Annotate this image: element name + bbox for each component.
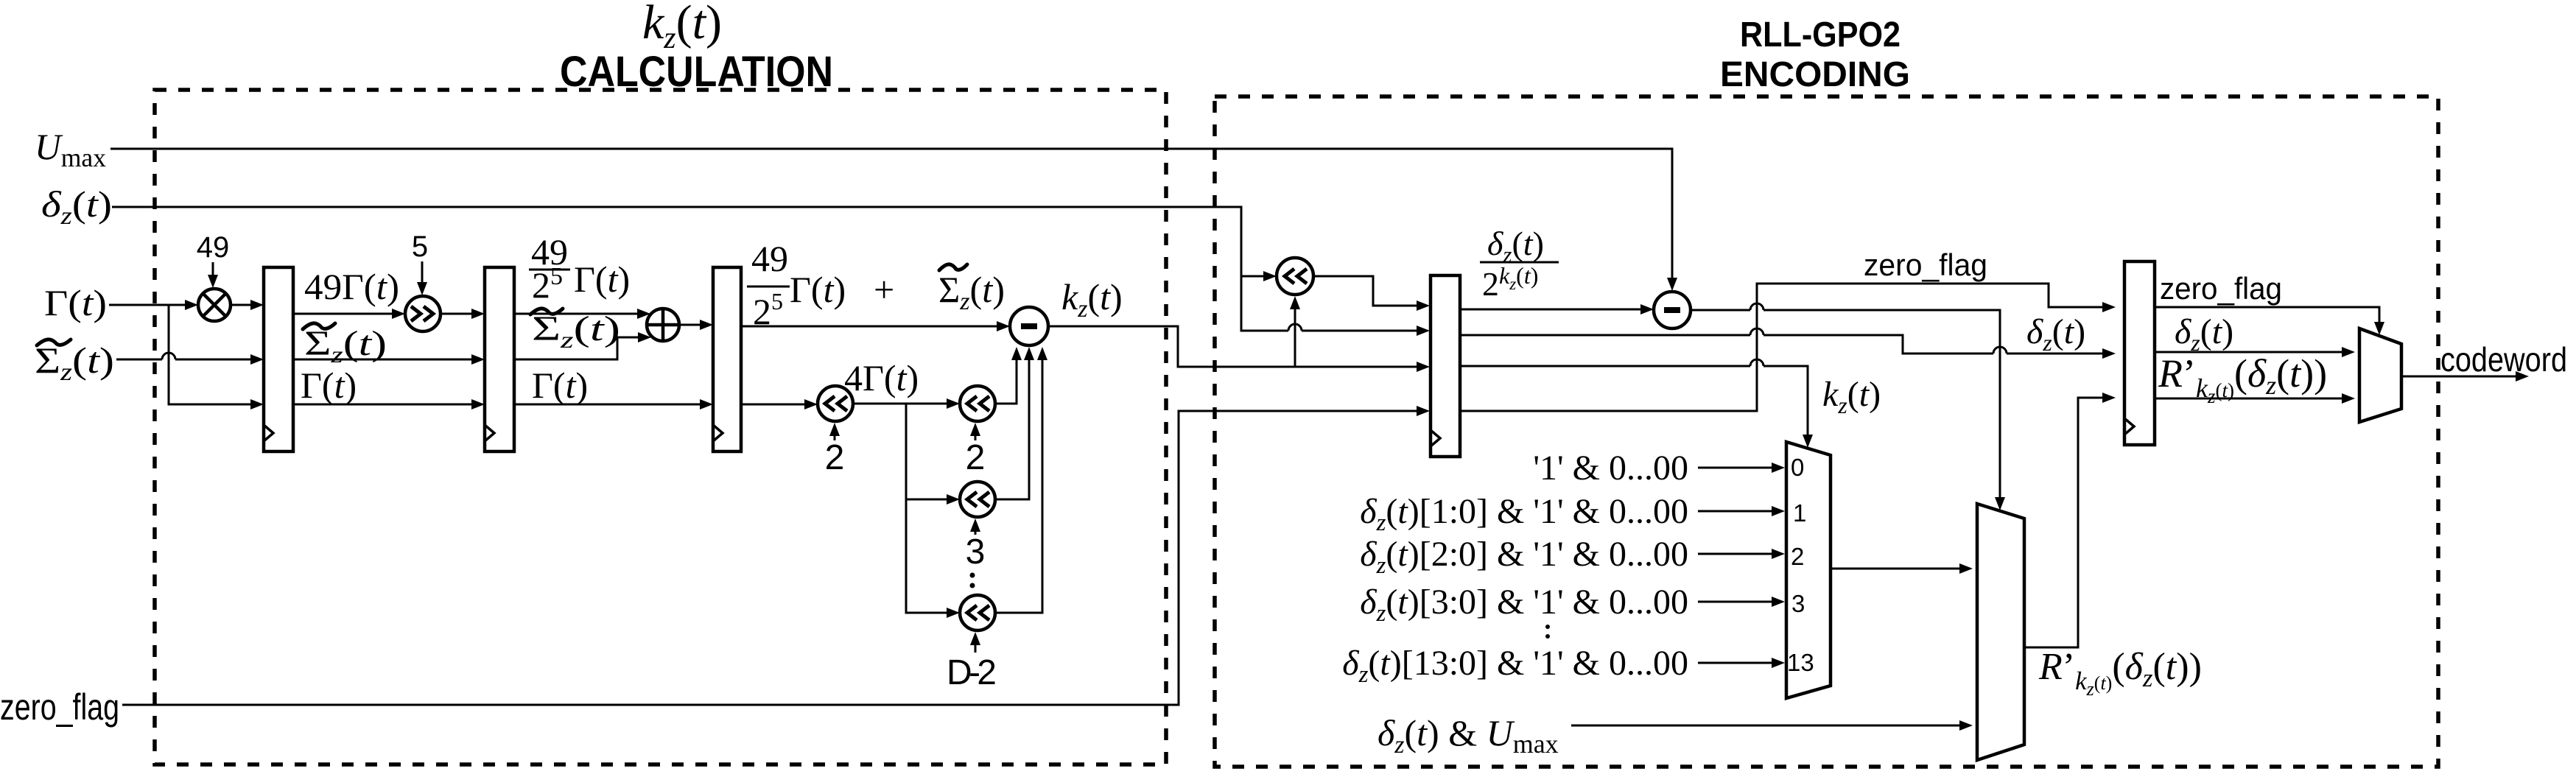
svg-text:δz(t)[2:0] & '1' & 0...00: δz(t)[2:0] & '1' & 0...00 (1360, 535, 1688, 579)
title ENCODING (1720, 55, 1910, 94)
dots mux inputs (1545, 625, 1550, 639)
svg-text:1: 1 (1793, 499, 1806, 527)
svg-text:Γ(t): Γ(t) (44, 282, 107, 323)
svg-text:+: + (874, 269, 894, 310)
adder (647, 309, 713, 341)
constant 3 under SL3 (966, 518, 986, 572)
mux1 input 0 (1533, 449, 1785, 488)
svg-text:δz(t): δz(t) (1487, 225, 1544, 267)
svg-text:δz(t): δz(t) (2026, 312, 2085, 356)
shifter left SL1 (818, 386, 960, 421)
label Rprime mux2 (2038, 646, 2202, 700)
subtractor kz (1010, 307, 1048, 345)
label delta_z(t) input (41, 183, 112, 230)
svg-text:2: 2 (966, 438, 986, 477)
dots vertical (970, 573, 975, 588)
svg-text:Γ(t): Γ(t) (574, 259, 630, 300)
mux1 input 13 (1342, 644, 1785, 688)
wire R2 out Sigma (514, 332, 651, 359)
svg-text:3: 3 (966, 532, 986, 572)
svg-text:δz(t): δz(t) (41, 183, 112, 230)
shifter left SL2 (960, 347, 1022, 421)
wire Sigma_z input (116, 353, 264, 365)
mux1 (1786, 442, 1831, 698)
label zero_flag input (0, 686, 119, 728)
svg-text:2kz(t): 2kz(t) (1482, 262, 1538, 303)
svg-text:13: 13 (1787, 649, 1814, 676)
wire R3 out sum (741, 321, 1010, 331)
svg-text:25: 25 (532, 263, 563, 306)
wire kz tap up (1290, 296, 1300, 367)
svg-text:kz(t): kz(t) (642, 0, 722, 55)
constant 49 (197, 231, 230, 288)
svg-text:zero_flag: zero_flag (2160, 271, 2282, 306)
label frac 49/2^5 Gamma(t) (529, 231, 630, 306)
wire R2 out frac (514, 309, 650, 319)
register R1 (264, 267, 293, 451)
label frac sum (747, 238, 1005, 332)
label 4Gamma(t) (844, 357, 919, 398)
svg-text:δz(t)[13:0] & '1' & 0...00: δz(t)[13:0] & '1' & 0...00 (1342, 644, 1688, 688)
wire Umax (110, 149, 1677, 291)
svg-text:Umax: Umax (35, 126, 106, 172)
svg-text:3: 3 (1791, 590, 1805, 617)
svg-text:zero_flag: zero_flag (1864, 247, 1987, 282)
wire E2 row3 out (2155, 393, 2355, 404)
wire kz out (1048, 326, 1430, 372)
svg-text:Σz(t): Σz(t) (304, 324, 387, 368)
wire E1 row4 zeroflag out (1460, 284, 2116, 411)
wire codeword out (2401, 371, 2529, 382)
svg-text:Γ(t): Γ(t) (301, 365, 357, 406)
label kz(t) out (1061, 276, 1123, 323)
svg-text:kz(t): kz(t) (1061, 276, 1123, 323)
shifter left SL3 (960, 347, 1034, 517)
label delta_z(t) mid (2026, 312, 2085, 356)
label zero_flag right (2160, 271, 2282, 306)
constant 2 under SL2 (966, 423, 986, 477)
title CALCULATION (560, 48, 833, 96)
svg-text:CALCULATION: CALCULATION (560, 48, 833, 96)
label Gamma(t) after R2 (532, 365, 588, 406)
svg-text:R’kz(t)(δz(t)): R’kz(t)(δz(t)) (2038, 646, 2202, 700)
label Umax (35, 126, 106, 172)
svg-text:5: 5 (412, 231, 428, 263)
wire mux1 out (1831, 563, 1973, 574)
svg-text:49Γ(t): 49Γ(t) (304, 266, 399, 307)
register R3 (713, 267, 741, 451)
encoding dashed border box (1215, 96, 2438, 767)
title RLL-GPO2 (1740, 15, 1901, 55)
svg-text:RLL-GPO2: RLL-GPO2 (1740, 15, 1901, 55)
constant D-2 under SL4 (947, 632, 997, 692)
svg-text:'1' & 0...00: '1' & 0...00 (1533, 449, 1688, 488)
shifter left SL4 (960, 347, 1047, 630)
wire R3 out Gamma (741, 399, 818, 409)
wire E2 row1 out (2155, 307, 2384, 335)
svg-text:4Γ(t): 4Γ(t) (844, 357, 919, 398)
mux1 input 2 (1360, 535, 1785, 579)
svg-text:δz(t)[1:0] & '1' & 0...00: δz(t)[1:0] & '1' & 0...00 (1360, 492, 1688, 536)
constant 5 (412, 231, 428, 295)
svg-text:0: 0 (1791, 454, 1804, 481)
label kz(t) mux1 (1822, 375, 1881, 418)
wire delta Umax to mux2 (1571, 720, 1973, 731)
calculation dashed border box (155, 90, 1166, 764)
wire E1 row1 out (1460, 304, 1654, 314)
wire R2 out Gamma (514, 399, 713, 409)
label 49Gamma(t) (304, 266, 399, 307)
svg-text:Γ(t): Γ(t) (532, 365, 588, 406)
label Sigma_z(t) after R1 (303, 323, 387, 368)
shifter right 5 (405, 296, 485, 331)
svg-text:2: 2 (825, 438, 845, 477)
svg-text:δz(t)[3:0] & '1' & 0...00: δz(t)[3:0] & '1' & 0...00 (1360, 583, 1688, 627)
wire shift branch (906, 404, 960, 618)
wire R1 out Gamma (293, 399, 485, 409)
constant 2 under SL1 (825, 423, 845, 477)
wire R1 out 49G (293, 309, 405, 319)
svg-text:Σz(t): Σz(t) (938, 269, 1005, 315)
label Rprime right (2158, 351, 2327, 407)
wire E1 row3 kz out (1460, 359, 1813, 448)
wire E1 row2 delta out (1460, 328, 2116, 359)
label delta and Umax (1378, 712, 1559, 759)
wire sub2 out to mux2 sel (1691, 303, 2005, 510)
register E2 (2124, 261, 2155, 445)
svg-text:ENCODING: ENCODING (1720, 55, 1910, 94)
label codeword (2440, 340, 2567, 379)
svg-text:kz(t): kz(t) (1822, 375, 1881, 418)
svg-text:Γ(t): Γ(t) (790, 269, 846, 310)
wire delta_z input (112, 207, 1430, 336)
label Gamma(t) input (44, 282, 107, 323)
mux2 (1977, 504, 2024, 760)
mux1 input 1 (1360, 492, 1785, 536)
wire R1 out Sigma (293, 354, 485, 365)
svg-text:δz(t): δz(t) (2175, 312, 2233, 356)
wire mux2 out (2024, 393, 2116, 647)
multiplier by 49 (198, 289, 264, 321)
label frac delta over 2kz (1480, 225, 1559, 303)
label delta_z(t) right (2175, 312, 2233, 356)
label Sigma_z(t) after R2 (530, 309, 620, 353)
svg-text:Σz(t): Σz(t) (532, 309, 620, 353)
svg-text:zero_flag: zero_flag (0, 686, 119, 728)
shifter left enc (1277, 258, 1430, 311)
label Gamma(t) after R1 (301, 365, 357, 406)
wire E2 row2 out (2155, 347, 2355, 357)
svg-text:Σz(t): Σz(t) (35, 340, 114, 386)
label Sigma_z(t) input (35, 340, 114, 386)
mux3 (2359, 328, 2401, 422)
label zero_flag mid (1864, 247, 1987, 282)
svg-text:49: 49 (197, 231, 230, 264)
wire zero_flag (122, 406, 1430, 705)
title kz(t) (642, 0, 722, 55)
wire Gamma input (109, 300, 264, 409)
svg-text:D-2: D-2 (947, 653, 997, 692)
svg-text:49: 49 (751, 238, 788, 279)
svg-text:δz(t) & Umax: δz(t) & Umax (1378, 712, 1559, 759)
svg-text:2: 2 (1791, 543, 1804, 570)
mux1 input 3 (1360, 583, 1785, 627)
register E1 (1431, 275, 1460, 457)
register R2 (485, 267, 514, 451)
svg-text:codeword: codeword (2440, 340, 2567, 379)
subtractor enc (1654, 292, 1691, 328)
